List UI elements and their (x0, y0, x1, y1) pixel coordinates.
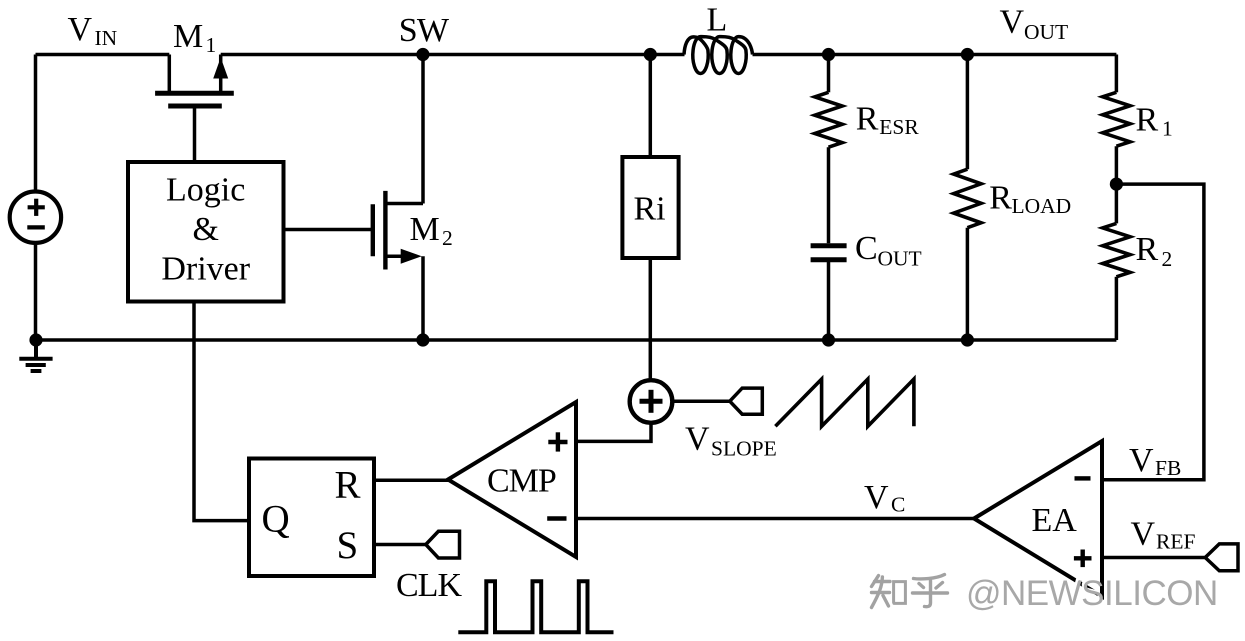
logic & driver box (128, 162, 284, 302)
wire logic box bottom to Q (194, 302, 249, 521)
svg-text:L: L (707, 2, 728, 39)
EA plus input sign (1074, 550, 1092, 568)
label M1 (173, 18, 216, 57)
node label VIN (68, 11, 118, 50)
transistor M2 (373, 55, 423, 341)
label R2 (1136, 231, 1173, 271)
label M2 (410, 211, 453, 250)
junction R_ESR top (822, 48, 835, 61)
svg-text:V: V (1000, 4, 1025, 41)
capacitor C_OUT (811, 246, 847, 260)
svg-text:OUT: OUT (1024, 20, 1068, 44)
svg-text:REF: REF (1156, 530, 1195, 554)
node VFB divider tap junction (1110, 178, 1123, 191)
wire summing node to CMP plus (576, 423, 651, 442)
label R1 (1136, 101, 1173, 140)
wire bottom ground rail (36, 338, 1117, 342)
wire feedback tap to EA minus (1102, 184, 1204, 480)
svg-text:V: V (68, 11, 93, 48)
wire C_OUT bottom to ground rail (827, 262, 831, 340)
wire top rail mid segment SW (221, 53, 685, 57)
label V_C (864, 479, 905, 517)
voltage source VIN (10, 192, 61, 243)
wire S to CLK connector (374, 543, 426, 547)
junction R_LOAD bottom (961, 333, 974, 346)
wire Ri bottom to summing node (649, 258, 653, 381)
CMP plus input sign (548, 432, 567, 451)
svg-text:OUT: OUT (878, 246, 922, 270)
label V_REF (1131, 516, 1196, 554)
label R_ESR (856, 101, 920, 139)
wire summing node to slope connector (672, 400, 730, 404)
comparator CMP (448, 402, 576, 557)
RS latch box (249, 459, 374, 577)
node label VOUT (1000, 4, 1069, 44)
label Logic & Driver (161, 171, 250, 287)
sawtooth waveform (775, 379, 914, 426)
svg-text:IN: IN (95, 26, 118, 50)
junction M2 source on ground rail (416, 333, 429, 346)
error amp EA (974, 441, 1102, 597)
connector V_SLOPE (730, 388, 763, 414)
junction C_OUT bottom (822, 333, 835, 346)
connector CLK (426, 531, 460, 558)
svg-text:EA: EA (1032, 502, 1078, 539)
svg-text:C: C (891, 493, 905, 517)
junction ground at source (29, 333, 42, 346)
svg-text:1: 1 (206, 33, 217, 57)
summing node (630, 380, 673, 423)
resistor R1 (1103, 55, 1130, 224)
wire top rail left segment VIN (36, 53, 170, 57)
svg-text:SW: SW (399, 12, 450, 49)
svg-text:V: V (1129, 442, 1154, 479)
svg-text:R: R (335, 464, 361, 507)
svg-text:FB: FB (1155, 456, 1181, 480)
inductor L (684, 37, 753, 74)
svg-text:Q: Q (262, 498, 290, 541)
wire logic to M2 gate (284, 228, 373, 232)
resistor R_LOAD (954, 55, 981, 341)
EA minus input sign (1075, 476, 1091, 480)
svg-text:C: C (855, 230, 878, 267)
label R_LOAD (989, 180, 1071, 218)
CMP minus input sign (547, 516, 566, 520)
connector V_REF (1205, 544, 1238, 571)
svg-text:V: V (685, 420, 710, 457)
label C_OUT (855, 230, 922, 270)
wire Ri top (649, 55, 653, 158)
junction R_LOAD top (961, 48, 974, 61)
svg-text:2: 2 (1162, 247, 1173, 271)
CLK pulse waveform (458, 581, 613, 632)
ground (19, 340, 52, 371)
resistor Ri box (622, 157, 678, 258)
svg-text:1: 1 (1162, 117, 1173, 141)
node SW junction (416, 48, 429, 61)
svg-text:R: R (1136, 101, 1159, 138)
wire R to CMP output (374, 478, 449, 482)
svg-text:R: R (856, 101, 879, 138)
svg-text:CMP: CMP (487, 463, 556, 500)
svg-text:ESR: ESR (879, 115, 919, 139)
junction Ri tap on VOUT rail (644, 48, 657, 61)
wire top rail right segment VOUT (753, 53, 1117, 57)
label V_FB (1129, 442, 1181, 480)
wire left vertical lower (34, 242, 38, 340)
svg-text:R: R (1136, 231, 1159, 268)
wire V_C from EA to CMP minus (576, 517, 974, 521)
svg-text:M: M (410, 211, 440, 248)
svg-text:CLK: CLK (396, 567, 462, 604)
svg-text:Ri: Ri (634, 191, 666, 228)
wire left vertical upper (34, 55, 38, 194)
svg-text:S: S (337, 524, 359, 567)
svg-text:LOAD: LOAD (1012, 194, 1072, 218)
svg-text:Driver: Driver (161, 250, 250, 287)
svg-text:V: V (864, 479, 889, 516)
transistor M1 (155, 55, 234, 163)
watermark zhihu glyphs (872, 575, 948, 608)
svg-text:&: & (192, 211, 218, 248)
label V_SLOPE (685, 420, 777, 460)
svg-text:R: R (989, 180, 1012, 217)
svg-text:V: V (1131, 516, 1156, 553)
resistor R_ESR (815, 55, 842, 244)
resistor R2 (1103, 223, 1130, 340)
svg-text:M: M (173, 18, 203, 55)
svg-text:SLOPE: SLOPE (711, 437, 777, 461)
svg-text:Logic: Logic (166, 171, 245, 208)
wire EA plus to VREF connector (1102, 556, 1205, 560)
svg-text:@NEWSILICON: @NEWSILICON (966, 574, 1218, 613)
svg-text:2: 2 (442, 226, 453, 250)
